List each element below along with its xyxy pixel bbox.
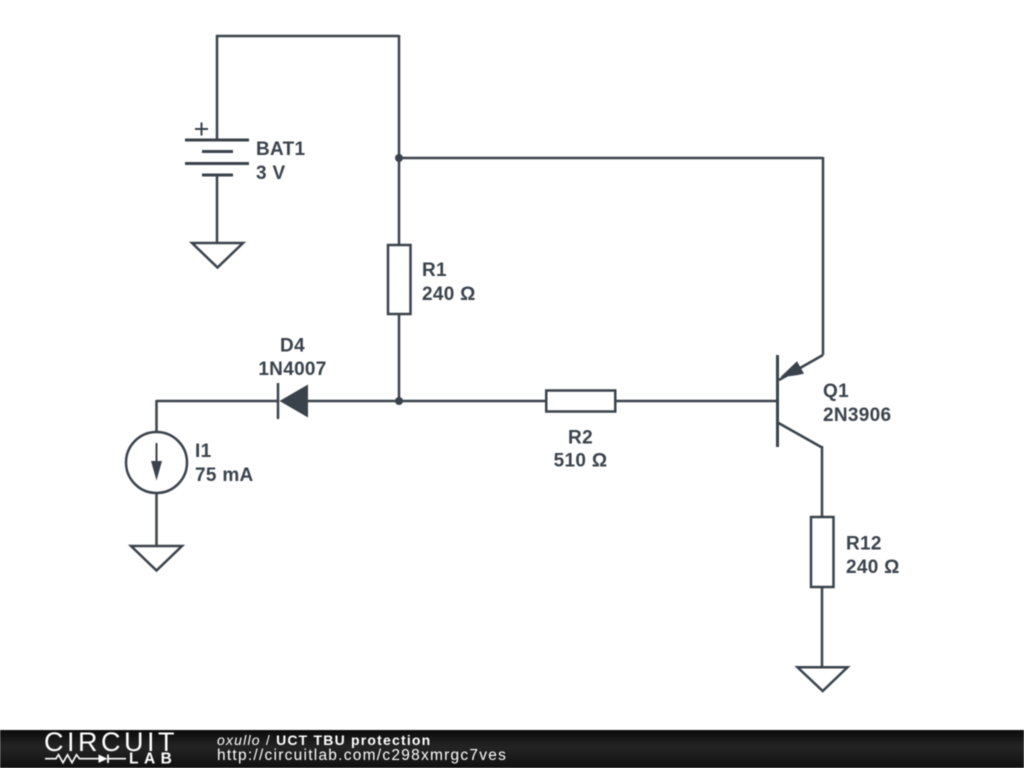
footer title line [217,732,431,748]
wire R1 to node B [398,314,401,402]
diode D4 triangle [280,385,309,418]
footer url line [217,747,507,765]
ground battery [192,243,243,268]
wire I1 top [155,400,158,432]
battery BAT1 [185,123,249,176]
ground Q1 emitter resistor [798,667,848,691]
node A junction dot [395,154,403,162]
wire top horizontal [216,35,399,38]
wire battery to ground [216,175,219,243]
wire R12 to ground [821,587,824,667]
wire emitter vertical [822,157,825,355]
wire battery top vertical [216,35,219,140]
svg-text:75 mA: 75 mA [195,465,254,486]
current source I1 arrow [151,443,162,481]
wire current source to diode [157,400,279,403]
svg-text:1N4007: 1N4007 [258,359,326,380]
transistor Q1 emitter diagonal [779,355,823,380]
ground I1 [131,546,182,571]
transistor Q1 base bar [776,355,779,447]
svg-text:2N3906: 2N3906 [823,405,891,426]
resistor R1 [388,245,411,314]
logo diode [99,755,108,763]
wire I1 to ground [155,493,158,546]
wire node A to transistor emitter column [399,157,823,160]
current source I1 circle [126,432,187,493]
svg-text:240 Ω: 240 Ω [422,284,476,305]
resistor R2 [546,391,615,412]
svg-text:3 V: 3 V [256,163,285,184]
svg-text:510 Ω: 510 Ω [554,451,608,472]
wire R2 to transistor base [617,400,777,403]
svg-text:I1: I1 [195,441,212,462]
svg-text:R12: R12 [846,534,882,555]
resistor R12 [811,517,834,587]
wire collector to R12 [821,446,824,517]
svg-text:BAT1: BAT1 [256,139,306,160]
svg-text:240 Ω: 240 Ω [846,557,900,578]
node B junction dot [395,397,403,405]
transistor Q1 emitter arrow [781,361,805,377]
wire node A vertical down to R1 [398,35,401,245]
wire diode to R2 [308,400,545,403]
diode D4 cathode bar [277,383,280,419]
CircuitLab logo [0,730,180,768]
footer bar [0,730,1024,768]
svg-text:D4: D4 [280,336,305,357]
svg-text:LAB: LAB [129,751,177,768]
transistor Q1 collector diagonal [779,423,823,448]
svg-text:R1: R1 [422,260,447,281]
svg-text:Q1: Q1 [823,381,849,402]
svg-text:R2: R2 [568,428,593,449]
logo resistor squiggle [45,755,99,763]
